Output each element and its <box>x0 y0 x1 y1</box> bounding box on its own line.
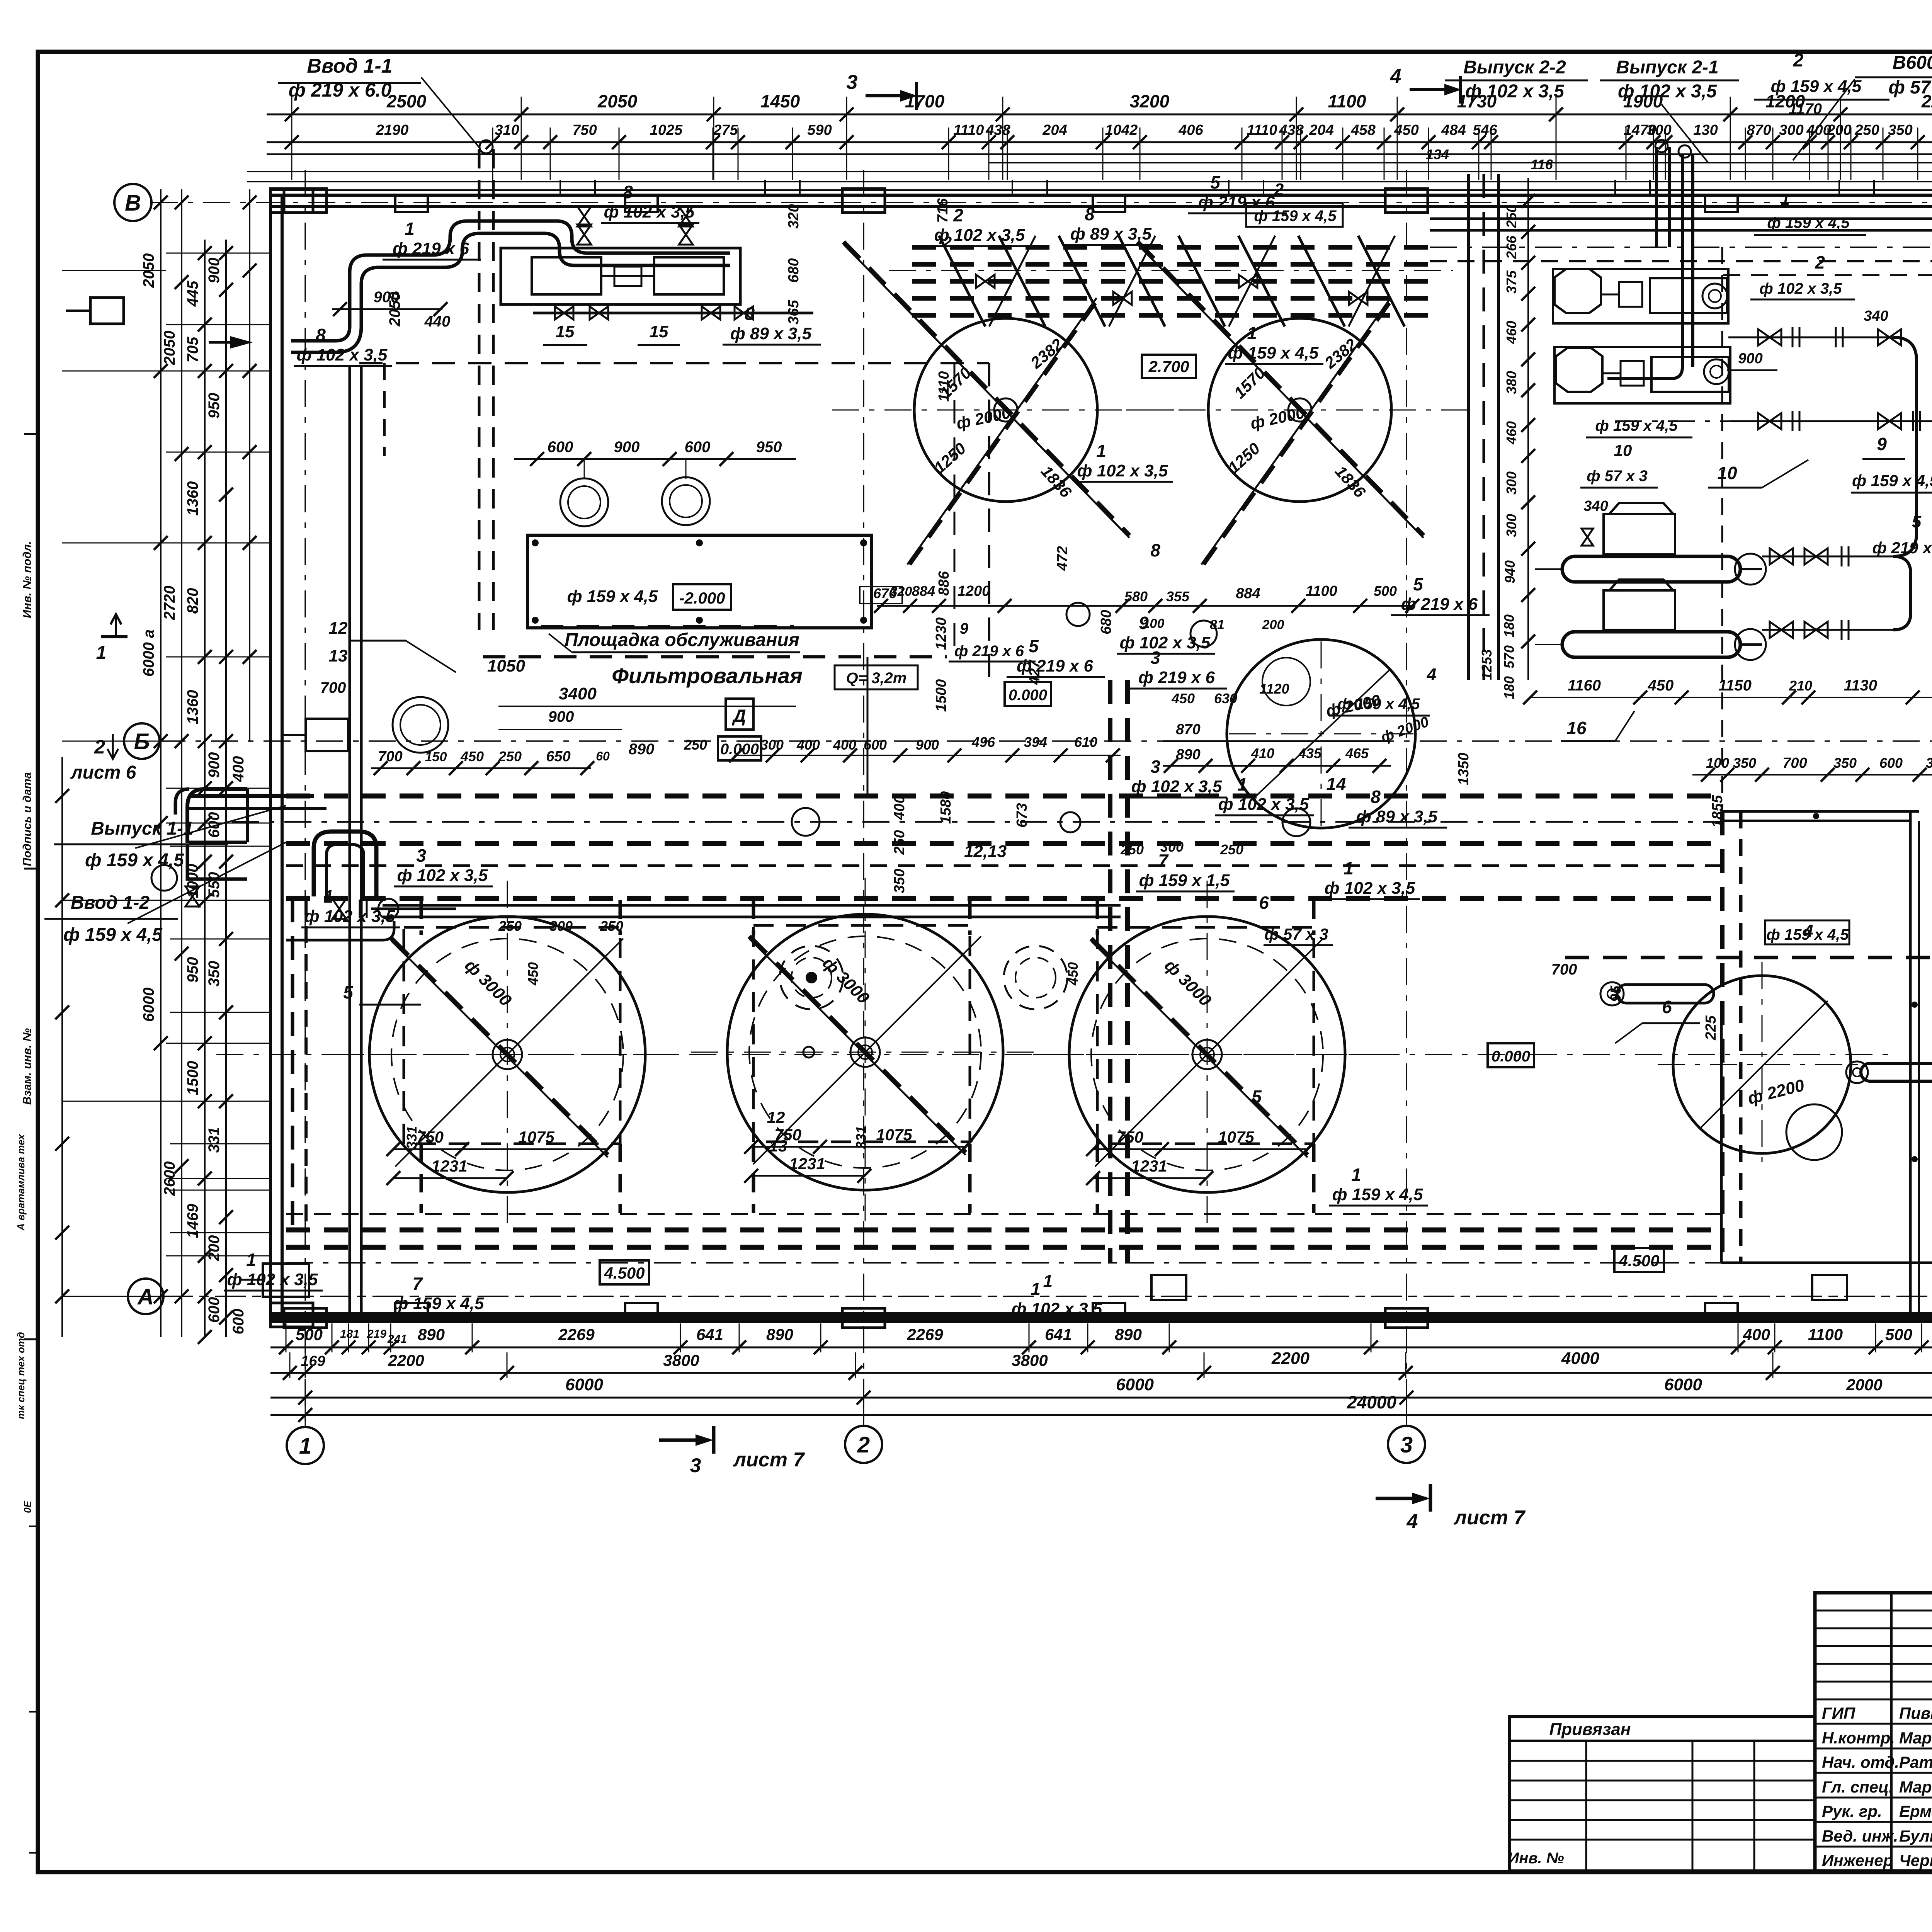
dashed square boxes around tanks <box>404 925 1314 1144</box>
svg-text:886: 886 <box>936 571 952 595</box>
top dimension chain row 1 <box>267 91 1932 121</box>
svg-text:Ввод 1-1: Ввод 1-1 <box>307 55 392 77</box>
window ticks on top wall <box>560 180 1932 195</box>
svg-text:13: 13 <box>769 1137 787 1155</box>
svg-text:Инв. № подл.: Инв. № подл. <box>21 541 34 618</box>
svg-text:450: 450 <box>1648 677 1674 694</box>
bottom extension lines <box>286 1323 1932 1426</box>
dense hatch top band second direction <box>989 236 1395 327</box>
service platform (Площадка обслуживания) <box>527 535 871 652</box>
svg-text:ф 57 х 3: ф 57 х 3 <box>1888 77 1932 98</box>
svg-text:1170: 1170 <box>1789 100 1822 117</box>
pipe from tank2200 to right <box>1846 1061 1932 1083</box>
svg-text:458: 458 <box>1350 122 1376 138</box>
svg-text:750: 750 <box>572 122 597 138</box>
svg-text:Ермакова: Ермакова <box>1899 1802 1932 1820</box>
svg-text:546: 546 <box>1473 122 1497 138</box>
svg-text:590: 590 <box>807 122 832 138</box>
svg-text:700: 700 <box>1551 961 1577 978</box>
svg-text:950: 950 <box>184 957 201 983</box>
svg-text:570: 570 <box>1501 645 1517 668</box>
svg-text:8: 8 <box>745 304 755 324</box>
svg-text:4.500: 4.500 <box>1618 1252 1659 1270</box>
svg-text:ф 159 х 4,5: ф 159 х 4,5 <box>1228 344 1319 362</box>
svg-text:890: 890 <box>629 741 655 758</box>
svg-text:900: 900 <box>206 752 223 778</box>
svg-text:1100: 1100 <box>1328 91 1366 111</box>
svg-text:5: 5 <box>343 982 354 1002</box>
svg-text:Рук. гр.: Рук. гр. <box>1822 1802 1882 1820</box>
svg-text:250: 250 <box>1854 122 1879 138</box>
svg-text:406: 406 <box>1178 122 1203 138</box>
svg-text:3800: 3800 <box>1012 1351 1048 1369</box>
svg-text:870: 870 <box>1747 122 1771 138</box>
svg-text:2050: 2050 <box>386 292 403 327</box>
svg-text:Подпись и дата: Подпись и дата <box>21 772 34 866</box>
svg-text:6000: 6000 <box>1664 1375 1702 1394</box>
pipe labels batch 4 (left tanks) <box>224 839 1243 1320</box>
pump unit 15-15 top-left <box>501 206 813 345</box>
svg-text:9: 9 <box>1877 434 1887 454</box>
svg-text:6000: 6000 <box>1116 1375 1154 1394</box>
left bottom corner squares <box>240 1264 1847 1300</box>
svg-text:2: 2 <box>953 205 963 225</box>
svg-text:496: 496 <box>971 734 995 750</box>
svg-text:ф 219 х 6: ф 219 х 6 <box>1017 656 1093 675</box>
svg-text:134: 134 <box>1426 146 1449 162</box>
svg-text:460: 460 <box>1503 321 1519 344</box>
bottom dimension chain row 1 <box>270 1325 1932 1368</box>
svg-text:3: 3 <box>847 71 858 94</box>
level boxes scattered <box>600 355 1932 1284</box>
svg-text:250: 250 <box>1120 842 1144 857</box>
svg-text:169: 169 <box>301 1353 325 1369</box>
svg-text:Выпуск 2-1: Выпуск 2-1 <box>1616 57 1718 78</box>
extra ticks left wall side <box>62 270 270 1296</box>
svg-text:2050: 2050 <box>161 331 178 366</box>
svg-text:Марионков: Марионков <box>1899 1778 1932 1796</box>
top dimension chain row 2 <box>267 122 1932 149</box>
svg-text:900: 900 <box>614 439 640 456</box>
manhole circles small <box>151 477 1310 1058</box>
svg-text:380: 380 <box>1503 371 1519 394</box>
svg-text:900: 900 <box>1738 350 1762 367</box>
svg-text:7: 7 <box>412 1274 423 1294</box>
svg-text:465: 465 <box>1345 745 1369 761</box>
svg-text:820: 820 <box>184 588 201 614</box>
svg-text:300: 300 <box>1647 122 1671 138</box>
svg-text:5: 5 <box>1252 1087 1262 1107</box>
svg-text:180: 180 <box>1501 614 1517 638</box>
svg-text:1253: 1253 <box>1479 649 1495 680</box>
title block: signature table <box>1815 1593 1932 1871</box>
svg-text:1042: 1042 <box>1105 122 1138 138</box>
svg-text:ф 89 х 3,5: ф 89 х 3,5 <box>1356 807 1438 826</box>
svg-text:472: 472 <box>1054 546 1071 571</box>
svg-text:ф 102 х 3,5: ф 102 х 3,5 <box>1012 1299 1102 1318</box>
svg-text:ф 219 х 6: ф 219 х 6 <box>1872 539 1932 557</box>
svg-text:15: 15 <box>556 322 575 341</box>
pump group top-right A <box>1553 269 1728 323</box>
svg-text:2: 2 <box>943 234 952 251</box>
svg-text:890: 890 <box>766 1325 793 1344</box>
svg-text:400: 400 <box>796 737 820 753</box>
svg-text:1: 1 <box>1237 774 1247 794</box>
vertical pipe channel x~4460-4510 <box>1722 247 1741 1263</box>
dash-dot horizontal through tanks row <box>166 1054 1932 1296</box>
svg-text:ф 159 х 4,5: ф 159 х 4,5 <box>85 850 184 871</box>
svg-text:12: 12 <box>767 1108 785 1126</box>
svg-text:0.000: 0.000 <box>1492 1048 1530 1065</box>
outflow pipes bottom left corner <box>185 789 247 906</box>
svg-text:2200: 2200 <box>388 1351 424 1369</box>
svg-text:275: 275 <box>713 122 738 138</box>
svg-text:2: 2 <box>857 1432 870 1458</box>
svg-text:2190: 2190 <box>376 122 409 138</box>
svg-text:Марионков: Марионков <box>1899 1729 1932 1747</box>
svg-text:450: 450 <box>1065 962 1081 986</box>
svg-text:ф 102 х 3,5: ф 102 х 3,5 <box>604 202 695 221</box>
svg-text:1500: 1500 <box>933 679 949 712</box>
svg-text:3800: 3800 <box>663 1351 699 1369</box>
svg-text:400: 400 <box>891 795 908 820</box>
svg-text:1100: 1100 <box>1808 1325 1843 1344</box>
snake pipe ф219 top-left <box>66 204 802 352</box>
svg-text:350: 350 <box>1926 755 1932 771</box>
svg-text:Q= 3,2т: Q= 3,2т <box>846 670 907 687</box>
axis circle A (А) <box>128 1279 163 1314</box>
capsule pump B (pos.16) <box>1530 580 1893 660</box>
pipe bundle bottom (y~3140-3265) <box>286 1214 1932 1263</box>
bottom dimension chain row 4 <box>270 1392 1932 1422</box>
label 4 / ф159x4,5 near middle tank <box>1329 665 1436 716</box>
left dimension chains <box>55 189 270 1344</box>
svg-text:500: 500 <box>1374 583 1397 599</box>
svg-text:4: 4 <box>1390 65 1401 88</box>
svg-text:Булычева: Булычева <box>1899 1827 1932 1845</box>
hydrocyclone unit ф2000 left <box>832 242 1180 565</box>
top labels: Выпуск 2-2 / 2-1 <box>1445 50 1889 162</box>
svg-text:884: 884 <box>1236 585 1260 602</box>
svg-text:355: 355 <box>1166 588 1190 604</box>
svg-text:200: 200 <box>1262 617 1284 632</box>
svg-text:3200: 3200 <box>1130 91 1170 111</box>
svg-text:900: 900 <box>548 708 574 725</box>
svg-text:250: 250 <box>684 737 707 753</box>
svg-text:4: 4 <box>1427 665 1436 684</box>
svg-text:445: 445 <box>184 281 201 307</box>
left area extra pipes <box>189 789 394 940</box>
svg-text:Вед. инж.: Вед. инж. <box>1822 1827 1898 1845</box>
svg-text:225: 225 <box>1703 1015 1719 1040</box>
svg-text:ГИП: ГИП <box>1822 1704 1855 1722</box>
valves right of pump groups <box>1615 327 1932 431</box>
svg-text:ф 102 х 3,5: ф 102 х 3,5 <box>1325 879 1415 898</box>
svg-text:1: 1 <box>323 886 333 906</box>
svg-text:Гл. спец.: Гл. спец. <box>1822 1778 1893 1796</box>
axis grid lines <box>151 170 1932 1428</box>
svg-text:705: 705 <box>184 337 201 362</box>
svg-text:3400: 3400 <box>559 684 597 703</box>
svg-text:Фильтровальная: Фильтровальная <box>612 663 803 688</box>
hydrocyclone unit ф2000 right <box>1126 242 1474 565</box>
building outer walls <box>270 195 1932 1323</box>
svg-text:630: 630 <box>1214 690 1237 706</box>
svg-text:1130: 1130 <box>1844 677 1877 694</box>
svg-text:1050: 1050 <box>487 656 525 675</box>
svg-text:лист 6: лист 6 <box>70 762 136 783</box>
svg-text:204: 204 <box>1042 122 1067 138</box>
top dense pipe band <box>889 236 1453 327</box>
svg-text:ф 159 х 4,5: ф 159 х 4,5 <box>63 925 163 945</box>
interior wall: filter room west <box>350 363 989 1313</box>
svg-text:300: 300 <box>549 918 573 934</box>
П-shaped outflow pipe left <box>175 789 376 896</box>
svg-text:1: 1 <box>1344 858 1354 878</box>
svg-text:5: 5 <box>1413 574 1423 594</box>
svg-text:600: 600 <box>206 1297 223 1323</box>
svg-text:870: 870 <box>1176 721 1200 738</box>
hydrocyclone dashed circles between tanks <box>780 946 1067 1009</box>
svg-text:ф 159 х 4,5: ф 159 х 4,5 <box>1771 77 1862 96</box>
svg-text:130: 130 <box>1693 122 1718 138</box>
svg-text:ф 159 х 4,5: ф 159 х 4,5 <box>1337 696 1420 713</box>
svg-text:300: 300 <box>1160 839 1184 855</box>
svg-text:1120: 1120 <box>1259 681 1289 697</box>
svg-text:1200: 1200 <box>957 583 990 599</box>
svg-text:300: 300 <box>1503 514 1519 537</box>
svg-text:1110: 1110 <box>936 371 952 402</box>
svg-text:12: 12 <box>329 619 348 638</box>
svg-text:673: 673 <box>1014 803 1030 827</box>
svg-text:Чертков: Чертков <box>1899 1851 1932 1869</box>
labels around Vypusk right (ф57x3 / 10) <box>1580 417 1692 546</box>
svg-text:Д: Д <box>731 706 746 726</box>
svg-text:ф 102 х 3,5: ф 102 х 3,5 <box>397 866 488 885</box>
pipe labels batch 3 (middle) <box>964 648 1700 1206</box>
svg-text:В600 10-1: В600 10-1 <box>1893 53 1932 73</box>
svg-text:600: 600 <box>685 439 711 456</box>
svg-text:6000: 6000 <box>565 1375 603 1394</box>
svg-text:10: 10 <box>1614 441 1632 459</box>
svg-text:350: 350 <box>1833 755 1857 771</box>
svg-text:700: 700 <box>378 748 402 765</box>
svg-text:8: 8 <box>316 325 326 345</box>
D mark and levels <box>718 699 761 760</box>
svg-text:Площадка обслуживания: Площадка обслуживания <box>565 630 799 650</box>
capsule pump A (pos.16) <box>1530 503 1893 585</box>
svg-text:890: 890 <box>1176 747 1200 763</box>
svg-text:6000 а: 6000 а <box>140 629 157 677</box>
svg-text:1231: 1231 <box>431 1157 467 1175</box>
svg-text:ф 159 х 4,5: ф 159 х 4,5 <box>1332 1185 1423 1204</box>
svg-text:484: 484 <box>1441 122 1466 138</box>
pipe labels batch 5 (top row misc dims) <box>860 583 1419 662</box>
svg-text:210: 210 <box>1789 678 1812 694</box>
svg-text:900: 900 <box>206 258 223 284</box>
tank 2 ф3000 <box>691 878 1039 1226</box>
svg-text:8: 8 <box>1371 787 1381 807</box>
title block: left attachment table <box>1508 1717 1815 1871</box>
svg-text:Инв. №: Инв. № <box>1508 1850 1564 1867</box>
pipe labels batch 2 (top middle) <box>931 172 1490 677</box>
valve assembly below П pipe <box>332 899 456 919</box>
svg-text:8: 8 <box>1150 540 1160 560</box>
svg-text:3: 3 <box>1150 648 1160 668</box>
additional interior columns bottom wall <box>395 1303 1932 1318</box>
svg-text:13: 13 <box>329 646 348 665</box>
top labels: Ввод 1-1 <box>278 55 480 149</box>
wall columns (pilasters) <box>270 189 1932 1328</box>
svg-text:6: 6 <box>1662 997 1672 1017</box>
svg-text:0.000: 0.000 <box>1009 687 1047 704</box>
interior vertical dim chain x3950 <box>1479 178 1535 699</box>
pipe run ф159 horizontal y~2478 <box>1565 920 1932 1012</box>
svg-text:2: 2 <box>1815 252 1825 272</box>
svg-text:1360: 1360 <box>184 481 201 516</box>
svg-text:500: 500 <box>1885 1325 1912 1344</box>
svg-text:2: 2 <box>94 736 105 758</box>
svg-text:2: 2 <box>1274 180 1284 199</box>
tank ф2200 right <box>1600 962 1866 1167</box>
svg-text:Нач. отд.: Нач. отд. <box>1822 1753 1899 1771</box>
svg-text:1: 1 <box>96 643 107 663</box>
svg-text:16: 16 <box>1566 718 1587 738</box>
svg-text:1: 1 <box>405 219 415 239</box>
svg-text:1360: 1360 <box>184 690 201 724</box>
svg-text:ф 89 х 3,5: ф 89 х 3,5 <box>730 324 812 343</box>
svg-text:1500: 1500 <box>184 1061 201 1095</box>
svg-text:331: 331 <box>404 1126 420 1149</box>
svg-text:ф 219 х 6: ф 219 х 6 <box>954 643 1024 660</box>
svg-text:2: 2 <box>1793 50 1804 71</box>
svg-text:2720: 2720 <box>161 586 178 621</box>
svg-text:1: 1 <box>246 1250 256 1270</box>
svg-text:10: 10 <box>1717 463 1737 483</box>
svg-text:350: 350 <box>891 869 908 893</box>
svg-text:ф 102 х 3,5: ф 102 х 3,5 <box>1077 461 1168 480</box>
svg-text:884: 884 <box>912 583 935 599</box>
top dimension auxiliary lines <box>247 97 1932 190</box>
svg-text:400: 400 <box>230 756 247 782</box>
svg-text:ф 219 х 6.0: ф 219 х 6.0 <box>289 79 392 101</box>
svg-text:ф 219 х 6: ф 219 х 6 <box>1138 668 1215 687</box>
svg-text:Привязан: Привязан <box>1549 1720 1631 1739</box>
svg-text:890: 890 <box>418 1325 445 1344</box>
svg-text:900: 900 <box>916 737 939 753</box>
svg-text:400: 400 <box>833 737 856 753</box>
svg-text:700: 700 <box>1782 755 1807 771</box>
svg-text:2050: 2050 <box>597 91 638 111</box>
svg-text:600: 600 <box>1879 755 1903 771</box>
svg-text:Ввод 1-2: Ввод 1-2 <box>71 893 150 913</box>
svg-text:ф 159 х 4,5: ф 159 х 4,5 <box>1254 207 1337 224</box>
svg-text:ф 102 х 3,5: ф 102 х 3,5 <box>1218 795 1309 814</box>
svg-text:ф 57 х 3: ф 57 х 3 <box>1587 468 1648 485</box>
svg-text:450: 450 <box>1171 690 1195 706</box>
svg-text:320: 320 <box>786 204 802 228</box>
svg-text:340: 340 <box>1583 498 1608 514</box>
svg-text:9: 9 <box>960 620 969 637</box>
tank 3 ф3000 <box>1033 881 1381 1228</box>
svg-text:460: 460 <box>1503 421 1519 445</box>
svg-text:Взам. инв. №: Взам. инв. № <box>21 1028 34 1105</box>
section mark 4 bottom <box>1376 1484 1526 1533</box>
svg-text:150: 150 <box>425 750 447 764</box>
svg-text:ф 159 х 4,5: ф 159 х 4,5 <box>1766 926 1849 943</box>
top-right pipe bundle to thermal unit <box>1430 219 1932 348</box>
svg-text:4.500: 4.500 <box>604 1264 645 1282</box>
svg-text:1160: 1160 <box>1568 677 1601 694</box>
svg-text:12,13: 12,13 <box>964 842 1007 861</box>
svg-text:Н.контр.: Н.контр. <box>1822 1729 1895 1747</box>
svg-text:1450: 1450 <box>760 91 800 111</box>
svg-text:ф 89 х 3,5: ф 89 х 3,5 <box>1070 224 1152 243</box>
svg-text:0Е: 0Е <box>22 1500 33 1513</box>
svg-text:204: 204 <box>1309 122 1333 138</box>
svg-text:24000: 24000 <box>1347 1392 1396 1412</box>
svg-text:ф 159 х 4,5: ф 159 х 4,5 <box>1595 417 1678 434</box>
svg-text:2.700: 2.700 <box>1148 357 1189 376</box>
svg-text:1230: 1230 <box>933 617 949 650</box>
svg-text:181: 181 <box>340 1328 359 1340</box>
svg-text:ф 159 х 4,5: ф 159 х 4,5 <box>567 587 658 606</box>
svg-text:2500: 2500 <box>386 91 427 111</box>
label 1 / ф159x4,5 top right risers <box>1754 190 1866 235</box>
svg-text:60: 60 <box>596 749 610 763</box>
svg-text:435: 435 <box>1298 745 1322 761</box>
svg-text:ф 102 х 3,5: ф 102 х 3,5 <box>304 907 395 926</box>
svg-text:700: 700 <box>320 679 346 696</box>
svg-text:1: 1 <box>1043 1272 1053 1291</box>
svg-text:А вратамлива тех: А вратамлива тех <box>15 1134 27 1231</box>
svg-text:ф 102 х 3,5: ф 102 х 3,5 <box>1465 81 1565 102</box>
svg-text:350: 350 <box>1888 122 1912 138</box>
svg-text:1: 1 <box>1781 190 1789 208</box>
svg-text:Ратников: Ратников <box>1899 1753 1932 1771</box>
svg-text:680: 680 <box>1098 610 1114 634</box>
left margin stamp text <box>15 434 38 1853</box>
vertical pipe channel x~3800-3900 <box>1468 174 1498 680</box>
svg-text:-2.000: -2.000 <box>679 589 725 607</box>
equipment box left of manhole <box>282 719 348 751</box>
valves on top band <box>976 275 1367 305</box>
svg-text:3: 3 <box>1150 757 1160 777</box>
svg-text:219: 219 <box>367 1328 386 1340</box>
tank ф2000 middle (pos.14) <box>1227 639 1415 828</box>
svg-text:641: 641 <box>1045 1325 1072 1344</box>
svg-text:200: 200 <box>206 1235 223 1262</box>
svg-text:Выпуск 2-2: Выпуск 2-2 <box>1463 57 1566 78</box>
svg-text:250: 250 <box>1503 205 1519 228</box>
axis circle B (В) <box>114 184 151 221</box>
svg-text:тк спец тех отд: тк спец тех отд <box>15 1332 27 1419</box>
svg-text:940: 940 <box>1502 560 1518 583</box>
svg-text:250: 250 <box>498 748 522 764</box>
svg-text:ф 102 х 3,5: ф 102 х 3,5 <box>297 345 388 364</box>
dims under pump block <box>1523 677 1932 782</box>
svg-text:200: 200 <box>1827 122 1851 138</box>
floor channel around tank ф2200 <box>1721 1024 1932 1263</box>
svg-text:716: 716 <box>935 198 951 223</box>
axis circle Б <box>70 723 160 783</box>
bottom dimension chain row 2 <box>270 1351 1932 1394</box>
extra bottom extension lines row2 <box>290 1352 1932 1378</box>
svg-text:310: 310 <box>495 122 519 138</box>
svg-text:4000: 4000 <box>1561 1349 1599 1368</box>
svg-text:3: 3 <box>416 845 426 866</box>
pit boundary walls right of tanks <box>1721 811 1919 1313</box>
